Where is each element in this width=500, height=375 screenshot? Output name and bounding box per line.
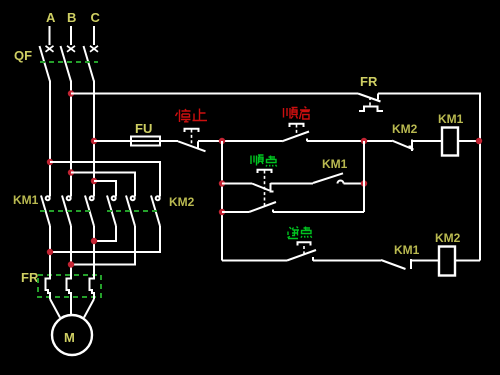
svg-text:KM1: KM1 bbox=[438, 112, 464, 126]
node B to control rail bbox=[68, 90, 74, 96]
KM2 main contact 3 bbox=[151, 196, 160, 227]
svg-text:M: M bbox=[64, 330, 75, 345]
node jog NC row bbox=[219, 180, 225, 186]
breaker QF pole A blade bbox=[40, 46, 51, 82]
interlock KM2 NC terminal tick bbox=[409, 140, 413, 152]
KM2 main contact 1 bbox=[107, 196, 116, 227]
control row1 wire start to KM2 NC bbox=[307, 140, 392, 142]
row2 wire jog NC to KM1 NO bbox=[271, 183, 314, 185]
svg-text:C: C bbox=[91, 10, 101, 25]
wire coil KM2 to rail bbox=[455, 260, 480, 262]
FR NC actuator bump bbox=[359, 107, 383, 112]
stop button 停止 label bbox=[176, 109, 208, 123]
svg-text:KM2: KM2 bbox=[435, 231, 461, 245]
bottom rail wire jog to KM1 NC bbox=[313, 260, 381, 262]
wire KM2 pole3 tie bbox=[50, 226, 160, 252]
node C to fuse rail bbox=[91, 138, 97, 144]
fuse FU body bbox=[131, 137, 160, 146]
start button NO blade bbox=[282, 132, 309, 142]
interlock KM1 NC terminal tick bbox=[410, 259, 412, 269]
wire KM2 pole2 tie bbox=[71, 226, 135, 265]
jog NC blade bbox=[252, 184, 270, 191]
wire B branch to KM2 pole 2 bbox=[71, 173, 135, 197]
svg-text:KM1: KM1 bbox=[394, 243, 420, 257]
svg-text:KM2: KM2 bbox=[169, 195, 195, 209]
svg-text:KM1: KM1 bbox=[322, 157, 348, 171]
node stop junction bbox=[219, 138, 225, 144]
seal-in vertical link bbox=[363, 141, 365, 212]
motor lead left bbox=[50, 299, 60, 318]
start button plunger dashed bbox=[296, 125, 298, 137]
node A branch bbox=[47, 159, 53, 165]
node coil KM1 rail bbox=[476, 138, 482, 144]
fuse rail wire bbox=[94, 140, 178, 142]
svg-text:FR: FR bbox=[21, 270, 39, 285]
svg-text:B: B bbox=[67, 10, 76, 25]
wire C branch to KM2 pole 1 bbox=[94, 181, 116, 197]
control row1 wire stop to start bbox=[198, 140, 282, 142]
wire A branch to KM2 pole 3 bbox=[50, 162, 160, 197]
stop button cap bbox=[185, 129, 199, 132]
breaker QF pole B blade bbox=[61, 46, 72, 82]
control top rail left bbox=[71, 93, 358, 95]
coil KM2 body bbox=[439, 247, 455, 276]
reverse jog cap bbox=[298, 242, 311, 245]
FR NC contact blade bbox=[358, 94, 381, 102]
svg-text:FR: FR bbox=[360, 74, 378, 89]
svg-text:KM2: KM2 bbox=[392, 122, 418, 136]
motor lead right bbox=[84, 299, 94, 318]
start button NO terminal tick bbox=[306, 139, 308, 142]
KM2 main contact 2 bbox=[126, 196, 135, 227]
stop button NC terminal tick bbox=[197, 141, 199, 148]
control top rail right bbox=[378, 93, 480, 95]
jog button cap bbox=[258, 170, 272, 173]
wire KM1 NC to coil KM2 bbox=[411, 260, 439, 262]
KM1 linkage dashed bbox=[40, 210, 90, 212]
forward start 顺启 label bbox=[284, 107, 311, 120]
KM2 linkage dashed bbox=[107, 210, 161, 212]
reverse jog 逆点 label bbox=[288, 227, 312, 239]
jog NC terminal tick bbox=[271, 183, 274, 192]
wire coil KM1 to rail bbox=[458, 140, 480, 142]
FR heater element 1 bbox=[46, 268, 51, 299]
svg-text:FU: FU bbox=[135, 121, 152, 136]
interlock KM2 NC blade bbox=[392, 141, 414, 150]
breaker QF pole C blade bbox=[84, 46, 95, 82]
node C branch bbox=[91, 178, 97, 184]
right rail vertical bbox=[479, 93, 481, 261]
wire KM1 pole1 down bbox=[49, 226, 51, 268]
reverse jog plunger dashed bbox=[303, 246, 305, 256]
node tie pole1 bbox=[47, 249, 53, 255]
seal-in KM1 NO terminal arc bbox=[338, 181, 344, 184]
FR NC contact terminal tick bbox=[377, 94, 379, 100]
supply lead C with arrow bbox=[90, 26, 98, 52]
forward jog 顺点 label bbox=[251, 155, 277, 167]
row2 wire arc to node bbox=[344, 183, 365, 185]
reverse jog NO blade bbox=[287, 250, 316, 261]
wire KM1 pole3 down bbox=[93, 226, 95, 268]
node tie pole3 bbox=[91, 238, 97, 244]
node jog NO row bbox=[219, 209, 225, 215]
supply lead B with arrow bbox=[67, 26, 75, 52]
branch vertical below stop bbox=[221, 141, 223, 261]
thermal relay FR heater box dashed bbox=[38, 275, 101, 297]
interlock KM1 NC blade bbox=[381, 260, 406, 269]
FR heater element 2 bbox=[67, 268, 72, 299]
node tie pole2 bbox=[68, 261, 74, 267]
wire KM1 pole2 down bbox=[70, 226, 72, 268]
wire KM2 pole1 tie bbox=[94, 226, 116, 241]
start button cap bbox=[290, 124, 304, 127]
supply lead A with arrow bbox=[46, 26, 54, 52]
FR NC actuator dashed link bbox=[369, 97, 371, 106]
jog button plunger dashed bbox=[264, 171, 266, 208]
KM1 main contact 1 bbox=[41, 196, 50, 227]
svg-text:KM1: KM1 bbox=[13, 193, 39, 207]
seal-in KM1 NO blade bbox=[313, 173, 343, 183]
motor lead middle bbox=[70, 299, 72, 315]
stop button plunger dashed bbox=[191, 130, 193, 148]
FR heater element 3 bbox=[90, 268, 95, 299]
KM1 main contact 3 bbox=[85, 196, 94, 227]
row3 wire jog NO to link bbox=[273, 211, 364, 213]
jog NO terminal tick bbox=[272, 210, 274, 213]
KM1 main contact 2 bbox=[62, 196, 71, 227]
node seal-in mid bbox=[361, 180, 367, 186]
svg-text:QF: QF bbox=[14, 48, 32, 63]
node B branch bbox=[68, 169, 74, 175]
coil KM1 body bbox=[442, 128, 458, 156]
jog NO blade bbox=[249, 202, 276, 212]
row2 wire node to jog NC bbox=[222, 183, 252, 185]
phase wire B vertical bbox=[70, 81, 72, 197]
wire KM2 NC to coil KM1 bbox=[412, 140, 442, 142]
bottom rail left bbox=[222, 260, 287, 262]
motor M circle bbox=[52, 315, 92, 355]
stop button NC blade bbox=[178, 141, 206, 151]
node seal-in top bbox=[361, 138, 367, 144]
phase wire A vertical bbox=[49, 81, 51, 197]
row3 wire node to jog NO bbox=[222, 211, 249, 213]
svg-text:A: A bbox=[46, 10, 56, 25]
breaker QF linkage dashed bbox=[40, 61, 98, 63]
reverse jog NO terminal tick bbox=[312, 257, 314, 261]
phase wire C vertical bbox=[93, 81, 95, 197]
